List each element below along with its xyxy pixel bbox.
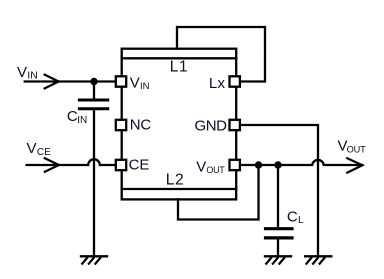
svg-text:L2: L2 <box>166 172 184 189</box>
arrowhead VCE input <box>45 158 59 172</box>
svg-text:Lx: Lx <box>209 75 226 92</box>
capacitor CIN plates <box>79 99 107 102</box>
node junction dot at VIN/CIN <box>90 78 97 85</box>
pin square GND (pin 5) <box>230 120 240 130</box>
pin square CE (pin 3) <box>116 160 126 170</box>
node junction dot at VOUT/L2 <box>255 161 262 168</box>
ground GND3 (below GND pin wire) <box>305 255 331 257</box>
wire CL bottom lead to ground <box>277 239 279 256</box>
arrowhead VIN input <box>45 75 59 89</box>
wire CL top lead <box>277 165 279 227</box>
svg-text:GND: GND <box>195 117 228 134</box>
IC body U1 outline <box>122 49 237 200</box>
pin label VIN <box>130 75 150 93</box>
svg-text:V: V <box>196 158 206 175</box>
ground GND2 (below CL) <box>265 255 291 257</box>
capacitor CL plates <box>266 227 293 230</box>
svg-text:C: C <box>287 208 298 225</box>
pin square NC (pin 2) <box>116 120 126 130</box>
wire VCE input with hop over ground line <box>27 159 116 165</box>
pin square Lx (pin 6) <box>230 76 240 86</box>
svg-text:V: V <box>27 140 37 157</box>
wire L1 loop (top strip to Lx pin) <box>177 27 265 82</box>
svg-text:IN: IN <box>140 81 150 92</box>
label VCE (input net) <box>27 140 52 158</box>
arrowhead VOUT output <box>347 158 362 172</box>
wire L2 loop (bottom strip to VOUT node) <box>178 165 259 220</box>
pin square VOUT (pin 4) <box>230 160 240 170</box>
label VIN (input net) <box>17 64 38 82</box>
svg-text:IN: IN <box>77 115 87 126</box>
svg-text:CE: CE <box>129 156 150 173</box>
wire VIN input <box>25 80 116 82</box>
inductor L1 strip (top inner line) <box>122 57 237 59</box>
svg-text:CE: CE <box>37 147 51 158</box>
wire CIN bottom lead to ground <box>93 109 95 257</box>
label CIN (capacitor value ref) <box>67 108 87 126</box>
node junction dot at VOUT/CL <box>274 161 281 168</box>
ground GND1 (below CIN) <box>81 255 107 257</box>
label VOUT (output net) <box>338 138 367 155</box>
inductor L2 strip (bottom inner line) <box>122 188 237 190</box>
wire VOUT output with hop over GND line <box>240 160 363 165</box>
svg-text:V: V <box>130 75 140 92</box>
label CL (capacitor ref) <box>287 208 304 226</box>
wire GND pin to right ground <box>240 125 319 256</box>
svg-text:OUT: OUT <box>206 165 225 175</box>
svg-text:L: L <box>298 215 304 226</box>
wire CIN top lead <box>93 82 95 101</box>
svg-text:OUT: OUT <box>347 144 367 154</box>
svg-text:NC: NC <box>130 116 152 133</box>
svg-text:L1: L1 <box>170 59 189 76</box>
svg-text:IN: IN <box>27 70 38 82</box>
pin square VIN (pin 1) <box>116 76 126 86</box>
pin label VOUT <box>196 158 225 175</box>
svg-text:V: V <box>17 64 27 81</box>
